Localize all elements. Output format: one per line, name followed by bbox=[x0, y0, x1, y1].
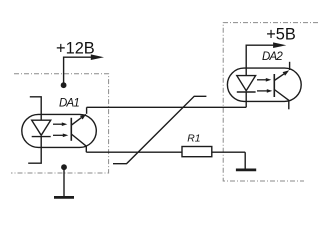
wire DA1 collector riser bbox=[86, 107, 88, 114]
LED of DA1 (triangle) bbox=[32, 120, 51, 135]
LED of DA2 (triangle) bbox=[237, 76, 256, 91]
ground (left) bar bbox=[54, 196, 74, 199]
crossover (transposition) link bbox=[113, 96, 206, 163]
phototransistor of DA2 emitter lead bbox=[274, 90, 289, 101]
junction dot (left ground terminal) bbox=[61, 164, 67, 170]
phototransistor of DA1 base bar bbox=[70, 118, 72, 141]
resistor R1 bbox=[182, 147, 212, 157]
wire DA1 emitter to R1 bbox=[86, 151, 182, 153]
ground (right) bar bbox=[236, 168, 256, 171]
optocoupler DA2 package bbox=[227, 68, 301, 101]
LED of DA1 cathode bar bbox=[32, 136, 51, 138]
arrowhead +5V bbox=[273, 42, 286, 48]
svg-text:DA2: DA2 bbox=[262, 51, 283, 63]
ground (left) stem bbox=[63, 167, 65, 196]
wire DA1 LED anode lead bbox=[30, 97, 41, 120]
wire DA2 collector stub bbox=[289, 62, 291, 70]
svg-text:R1: R1 bbox=[187, 134, 200, 145]
junction dot (+12V terminal) bbox=[61, 82, 67, 88]
emission arrow 2 of DA2 bbox=[257, 90, 267, 92]
optocoupler DA1 package bbox=[22, 114, 97, 147]
wire isolation link (DA1 collector to DA2 LED cathode) bbox=[87, 106, 247, 108]
svg-text:+5В: +5В bbox=[266, 25, 296, 43]
phototransistor of DA2 base bar bbox=[273, 74, 275, 97]
wire DA1 emitter riser bbox=[85, 146, 87, 152]
LED of DA2 cathode bar bbox=[237, 91, 256, 93]
emission arrow 1 of DA1 bbox=[53, 123, 62, 125]
wire DA2 LED cathode riser bbox=[245, 92, 247, 107]
enclosure box 2 (right module, dash-dot boundary) bbox=[223, 23, 318, 181]
wire DA1 LED cathode lead bbox=[28, 137, 41, 164]
emission arrow 2 of DA1 bbox=[53, 134, 63, 136]
wire +12V feed bbox=[64, 57, 91, 85]
phototransistor of DA1 emitter lead bbox=[71, 134, 86, 146]
wire R1 to ground bbox=[212, 151, 245, 153]
wire +5V feed / DA2 LED anode lead bbox=[246, 45, 273, 75]
arrowhead +12V bbox=[91, 54, 104, 60]
emission arrow 1 of DA2 bbox=[257, 79, 266, 81]
svg-text:+12В: +12В bbox=[56, 39, 95, 57]
svg-text:DA1: DA1 bbox=[59, 98, 79, 110]
ground (right) stem bbox=[244, 152, 246, 169]
wire DA2 emitter stub bbox=[288, 100, 290, 109]
phototransistor of DA1 collector lead bbox=[71, 118, 81, 126]
phototransistor of DA2 collector lead bbox=[274, 74, 284, 81]
enclosure box 1 (left module, dash-dot boundary) bbox=[11, 74, 109, 173]
